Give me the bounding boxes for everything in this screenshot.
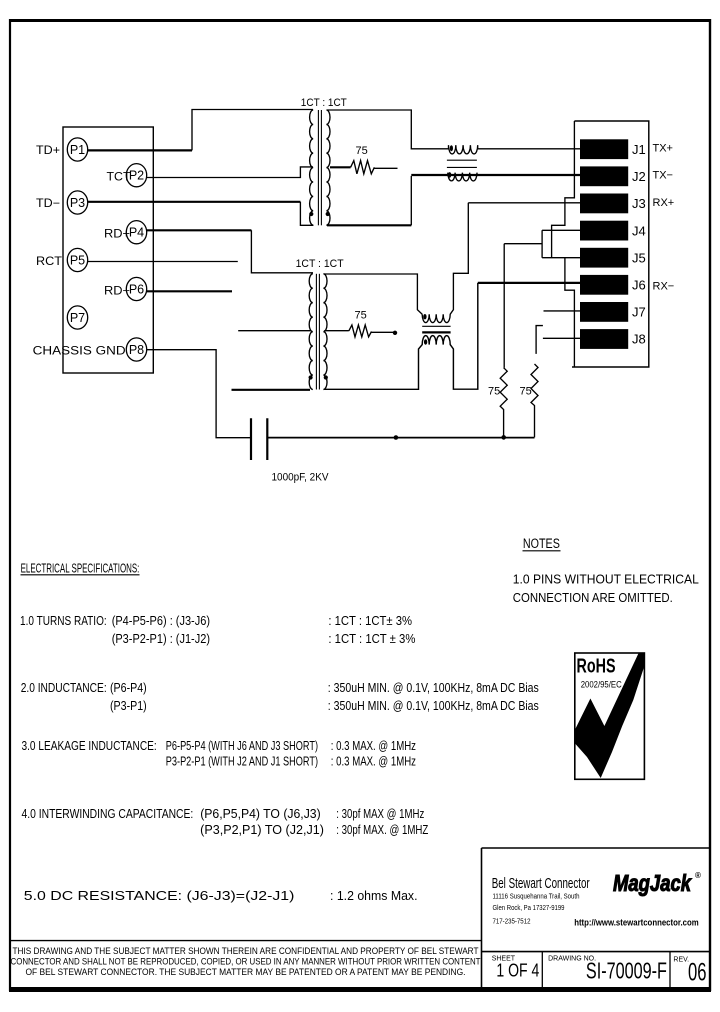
svg-text:1000pF, 2KV: 1000pF, 2KV (272, 472, 330, 484)
svg-text:P8: P8 (129, 343, 144, 357)
svg-text:(P3,P2,P1) TO (J2,J1): (P3,P2,P1) TO (J2,J1) (200, 823, 324, 837)
svg-text:: 0.3 MAX. @ 1MHz: : 0.3 MAX. @ 1MHz (331, 739, 416, 753)
svg-text:THIS DRAWING AND THE SUBJECT M: THIS DRAWING AND THE SUBJECT MATTER SHOW… (13, 946, 480, 956)
svg-text:P5: P5 (70, 254, 85, 268)
svg-text:J7: J7 (632, 305, 646, 320)
svg-text:TD−: TD− (36, 198, 60, 210)
svg-text:: 1CT : 1CT ± 3%: : 1CT : 1CT ± 3% (328, 632, 415, 646)
svg-text:Glen Rock, Pa 17327-9199: Glen Rock, Pa 17327-9199 (493, 903, 565, 912)
svg-text:5.0 DC RESISTANCE: (J6-J3)=(J2: 5.0 DC RESISTANCE: (J6-J3)=(J2-J1) (24, 889, 295, 903)
svg-text:SI-70009-F: SI-70009-F (586, 958, 667, 984)
svg-text:RD+: RD+ (104, 229, 130, 241)
svg-text:MagJack: MagJack (613, 870, 692, 896)
svg-text:OF BEL STEWART CONNECTOR. THE: OF BEL STEWART CONNECTOR. THE SUBJECT MA… (26, 967, 466, 977)
svg-text:(P4-P5-P6) : (J3-J6): (P4-P5-P6) : (J3-J6) (112, 614, 210, 628)
svg-text:717-235-7512: 717-235-7512 (493, 917, 531, 926)
svg-text:J5: J5 (632, 250, 646, 265)
svg-text:06: 06 (688, 959, 707, 987)
svg-text:: 350uH MIN. @ 0.1V, 100KHz, 8: : 350uH MIN. @ 0.1V, 100KHz, 8mA DC Bias (328, 699, 539, 713)
svg-text:2.0 INDUCTANCE:: 2.0 INDUCTANCE: (21, 681, 107, 695)
svg-text:1CT : 1CT: 1CT : 1CT (301, 97, 347, 109)
svg-text:(P3-P1): (P3-P1) (110, 699, 147, 713)
svg-text:(P6,P5,P4) TO (J6,J3): (P6,P5,P4) TO (J6,J3) (200, 807, 321, 821)
svg-text:P3-P2-P1 (WITH J2 AND J1 SHORT: P3-P2-P1 (WITH J2 AND J1 SHORT) (166, 755, 318, 769)
svg-text:®: ® (695, 871, 701, 880)
svg-text:: 30pf MAX @ 1MHz: : 30pf MAX @ 1MHz (336, 807, 424, 821)
svg-text:CHASSIS GND: CHASSIS GND (33, 346, 126, 358)
svg-text:1.0 PINS WITHOUT ELECTRICAL: 1.0 PINS WITHOUT ELECTRICAL (513, 572, 699, 587)
svg-text:3.0 LEAKAGE INDUCTANCE:: 3.0 LEAKAGE INDUCTANCE: (22, 739, 157, 753)
svg-text:P1: P1 (70, 143, 85, 157)
svg-text:1CT : 1CT: 1CT : 1CT (296, 258, 344, 270)
svg-text:75: 75 (488, 386, 500, 398)
svg-text:P4: P4 (129, 226, 144, 240)
svg-text:75: 75 (355, 310, 367, 322)
svg-text:: 0.3 MAX. @ 1MHz: : 0.3 MAX. @ 1MHz (331, 755, 416, 769)
svg-text:2002/95/EC: 2002/95/EC (581, 680, 622, 691)
svg-text:CONNECTOR AND SHALL NOT BE REP: CONNECTOR AND SHALL NOT BE REPRODUCED, C… (11, 956, 482, 966)
svg-text:TX−: TX− (653, 170, 673, 182)
svg-text:RX+: RX+ (653, 197, 675, 209)
svg-text:: 1.2 ohms Max.: : 1.2 ohms Max. (330, 889, 418, 903)
svg-text:P6-P5-P4 (WITH J6 AND J3 SHORT: P6-P5-P4 (WITH J6 AND J3 SHORT) (166, 739, 318, 753)
svg-text:P7: P7 (70, 311, 85, 325)
svg-text:J6: J6 (632, 278, 646, 293)
svg-text:75: 75 (520, 386, 532, 398)
svg-text:RD−: RD− (104, 286, 130, 298)
svg-text:J1: J1 (632, 142, 646, 157)
svg-text:RoHS: RoHS (577, 656, 616, 678)
svg-text:P3: P3 (70, 196, 85, 210)
svg-text:TX+: TX+ (653, 143, 673, 155)
svg-text:NOTES: NOTES (523, 536, 560, 551)
svg-text:CONNECTION ARE OMITTED.: CONNECTION ARE OMITTED. (513, 590, 673, 605)
svg-text:RCT: RCT (36, 256, 62, 268)
svg-text:1 OF 4: 1 OF 4 (496, 961, 539, 981)
svg-text:J4: J4 (632, 223, 646, 238)
svg-text:(P3-P2-P1) : (J1-J2): (P3-P2-P1) : (J1-J2) (112, 632, 210, 646)
svg-text:1.0 TURNS RATIO:: 1.0 TURNS RATIO: (20, 614, 107, 628)
svg-text:J8: J8 (632, 332, 646, 347)
svg-text:Bel Stewart Connector: Bel Stewart Connector (492, 875, 590, 892)
svg-text:(P6-P4): (P6-P4) (110, 681, 147, 695)
svg-text:P2: P2 (129, 169, 144, 183)
svg-text:: 1CT : 1CT± 3%: : 1CT : 1CT± 3% (328, 614, 412, 628)
svg-text:11116 Susquehanna Trail, South: 11116 Susquehanna Trail, South (493, 892, 580, 901)
svg-text:P6: P6 (129, 283, 144, 297)
svg-text:J2: J2 (632, 169, 646, 184)
svg-text:TD+: TD+ (36, 145, 60, 157)
svg-text:4.0 INTERWINDING CAPACITANCE:: 4.0 INTERWINDING CAPACITANCE: (22, 807, 194, 821)
svg-text:TCT: TCT (107, 172, 131, 184)
svg-text:75: 75 (356, 145, 368, 157)
svg-text:: 350uH MIN. @ 0.1V, 100KHz, 8: : 350uH MIN. @ 0.1V, 100KHz, 8mA DC Bias (328, 681, 539, 695)
svg-text:ELECTRICAL SPECIFICATIONS:: ELECTRICAL SPECIFICATIONS: (21, 561, 140, 576)
svg-text:J3: J3 (632, 196, 646, 211)
svg-text:REV.: REV. (673, 957, 689, 964)
svg-text:http://www.stewartconnector.co: http://www.stewartconnector.com (574, 918, 699, 928)
svg-text:: 30pf MAX. @ 1MHZ: : 30pf MAX. @ 1MHZ (336, 823, 428, 837)
svg-text:RX−: RX− (653, 280, 675, 292)
